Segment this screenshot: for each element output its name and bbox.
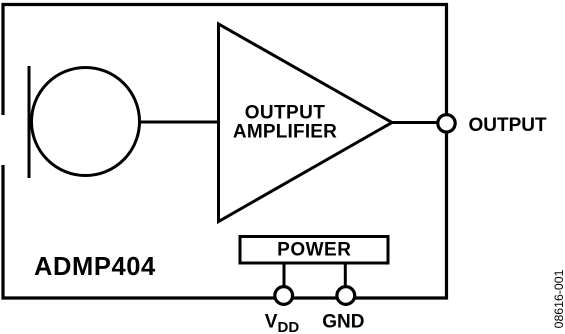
pin: VDD <box>275 287 293 305</box>
package outline with acoustic port gap on left <box>3 5 447 299</box>
svg-text:POWER: POWER <box>277 240 351 261</box>
pin: OUTPUT <box>438 115 455 132</box>
pin: GND <box>337 287 355 305</box>
wire: microphone to amplifier <box>140 121 220 124</box>
wire: amplifier to OUTPUT pin <box>392 121 440 124</box>
svg-text:VDD: VDD <box>265 312 300 334</box>
power block <box>240 237 388 264</box>
svg-text:OUTPUT: OUTPUT <box>469 115 548 136</box>
svg-text:OUTPUT: OUTPUT <box>245 103 326 124</box>
microphone port line <box>28 66 31 178</box>
svg-text:AMPLIFIER: AMPLIFIER <box>233 122 337 143</box>
microphone diaphragm <box>32 68 140 176</box>
wire: power block to VDD pin <box>283 263 286 290</box>
op-amp U1: output amplifier <box>219 24 393 222</box>
svg-text:08616-001: 08616-001 <box>552 269 565 328</box>
svg-text:GND: GND <box>322 311 364 332</box>
svg-text:ADMP404: ADMP404 <box>34 253 156 281</box>
wire: power block to GND pin <box>344 263 347 290</box>
